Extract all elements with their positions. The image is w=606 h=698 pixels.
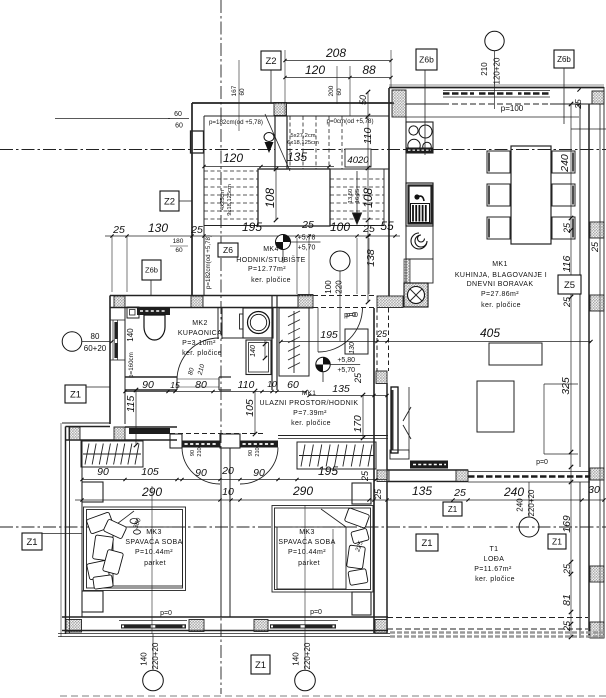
svg-text:108: 108 bbox=[361, 188, 375, 208]
wall hatch bath top-right bbox=[191, 296, 203, 308]
chair right 3 bbox=[552, 217, 575, 239]
svg-text:135: 135 bbox=[332, 383, 350, 395]
svg-text:25: 25 bbox=[373, 488, 383, 500]
door bedroom2 swing arc bbox=[240, 448, 278, 485]
svg-text:KUPAONICA: KUPAONICA bbox=[178, 330, 222, 337]
svg-text:110: 110 bbox=[362, 127, 374, 144]
window mark loggia bbox=[516, 482, 540, 537]
svg-text:220+20: 220+20 bbox=[303, 642, 312, 669]
svg-text:210: 210 bbox=[197, 447, 203, 456]
svg-text:195: 195 bbox=[318, 464, 338, 478]
door bedroom2 threshold bbox=[240, 441, 278, 448]
chair right 2 bbox=[552, 184, 575, 206]
svg-text:60: 60 bbox=[174, 111, 182, 118]
dim 115 left wall bbox=[125, 388, 138, 447]
svg-text:parket: parket bbox=[298, 560, 320, 567]
svg-text:90: 90 bbox=[97, 466, 109, 478]
svg-text:88: 88 bbox=[362, 63, 376, 77]
svg-text:60: 60 bbox=[336, 88, 343, 96]
wardrobe bedroom1 bbox=[81, 441, 143, 467]
column kitchen top-right corner bbox=[592, 91, 604, 104]
room label MK2 kupaonica bbox=[178, 320, 222, 357]
svg-text:120+20: 120+20 bbox=[493, 57, 502, 84]
wardrobe hall bbox=[297, 442, 376, 469]
svg-text:405: 405 bbox=[480, 326, 500, 340]
svg-text:P=11.67m²: P=11.67m² bbox=[474, 566, 512, 573]
svg-text:Z1: Z1 bbox=[70, 389, 81, 400]
svg-text:Z1: Z1 bbox=[448, 505, 458, 514]
room label MK1 kitchen bbox=[455, 261, 547, 309]
balcony door leaf bbox=[391, 387, 411, 453]
svg-text:25: 25 bbox=[573, 99, 583, 110]
svg-text:25: 25 bbox=[562, 563, 572, 575]
svg-text:+5,80: +5,80 bbox=[337, 357, 355, 364]
column at stair/kitchen corner bbox=[392, 90, 406, 117]
wall hatch living-loggia right bbox=[590, 468, 604, 480]
svg-text:P=12.77m²: P=12.77m² bbox=[248, 266, 286, 273]
svg-text:Z6b: Z6b bbox=[145, 266, 158, 275]
svg-text:135: 135 bbox=[287, 150, 307, 164]
washing machine bbox=[243, 308, 273, 338]
svg-text:MK4: MK4 bbox=[263, 246, 279, 253]
svg-text:55: 55 bbox=[380, 219, 394, 233]
section marker Z1 left upper bbox=[65, 385, 110, 403]
svg-text:140: 140 bbox=[140, 652, 149, 666]
svg-text:15: 15 bbox=[170, 380, 180, 390]
svg-text:60+20: 60+20 bbox=[84, 344, 107, 353]
section marker Z6 stairs bbox=[218, 243, 238, 257]
svg-text:Z5: Z5 bbox=[564, 280, 575, 291]
wall hatch left bottom bbox=[66, 620, 82, 633]
shower tub bbox=[246, 340, 271, 375]
chair left 1 bbox=[487, 151, 510, 173]
wall hatch br1 top-right bbox=[114, 427, 125, 440]
svg-text:p=182cm(od +5,78): p=182cm(od +5,78) bbox=[209, 119, 263, 126]
svg-text:MK3: MK3 bbox=[299, 529, 315, 536]
stairwell spine wall bbox=[275, 116, 287, 169]
svg-text:25: 25 bbox=[590, 241, 600, 253]
entry door leaf line bbox=[317, 308, 319, 353]
svg-text:167: 167 bbox=[231, 85, 238, 96]
section marker Z1 bottom bbox=[251, 655, 270, 674]
toilet bbox=[137, 307, 170, 340]
dim 325 living room helper lines bbox=[544, 129, 606, 454]
living-loggia wall bbox=[387, 470, 590, 482]
window bedroom1 south bbox=[119, 621, 187, 629]
svg-text:16,25: 16,25 bbox=[355, 189, 361, 204]
svg-text:105: 105 bbox=[244, 399, 256, 417]
svg-text:195: 195 bbox=[242, 220, 262, 234]
dim 135 entry y395 bbox=[307, 372, 388, 397]
dim chain right x571 bbox=[559, 102, 573, 639]
section marker Z2 left bbox=[160, 191, 192, 211]
bedroom1 top wall bbox=[62, 423, 177, 440]
svg-text:90: 90 bbox=[195, 467, 207, 479]
svg-text:6x18,125cm: 6x18,125cm bbox=[287, 140, 319, 146]
night stand br2 bottom bbox=[352, 592, 371, 615]
chair right 1 bbox=[552, 151, 575, 173]
kitchen counter top edge bbox=[406, 116, 579, 118]
column at stair top wall bbox=[274, 103, 287, 116]
room label MK4 hodnik-stubiste bbox=[236, 246, 305, 284]
svg-text:+5,70: +5,70 bbox=[298, 245, 316, 252]
column in stair left wall bbox=[191, 131, 204, 153]
svg-text:100: 100 bbox=[330, 220, 350, 234]
svg-text:P=7.39m²: P=7.39m² bbox=[293, 410, 327, 417]
svg-text:SPAVAĆA SOBA: SPAVAĆA SOBA bbox=[278, 537, 335, 546]
svg-text:MK3: MK3 bbox=[146, 529, 162, 536]
svg-text:170: 170 bbox=[352, 415, 364, 433]
svg-text:325: 325 bbox=[560, 377, 572, 395]
svg-text:25: 25 bbox=[376, 329, 388, 339]
svg-text:P=3.10m²: P=3.10m² bbox=[182, 340, 216, 347]
wall pier left of door1 bbox=[170, 434, 182, 448]
svg-text:HODNIK/STUBIŠTE: HODNIK/STUBIŠTE bbox=[236, 255, 305, 264]
svg-text:10: 10 bbox=[267, 379, 277, 389]
section marker Z2 top bbox=[261, 51, 281, 103]
dim 180/60 stair left bbox=[170, 238, 188, 254]
wall hatch loggia west top bbox=[376, 371, 387, 384]
svg-text:115: 115 bbox=[125, 395, 137, 412]
svg-text:Z1: Z1 bbox=[552, 537, 562, 547]
svg-text:130: 130 bbox=[148, 221, 168, 235]
wall hatch living-loggia mid bbox=[456, 470, 468, 482]
svg-text:138: 138 bbox=[365, 249, 377, 267]
svg-text:50: 50 bbox=[358, 95, 368, 105]
svg-text:p=0: p=0 bbox=[310, 609, 322, 616]
level marker stairs bbox=[276, 235, 321, 264]
wall hatch right 1 bbox=[590, 222, 604, 238]
svg-text:81: 81 bbox=[561, 594, 573, 606]
svg-text:+5,78: +5,78 bbox=[298, 235, 316, 242]
centerline horizontal axis upper bbox=[0, 149, 606, 151]
svg-text:140: 140 bbox=[126, 328, 135, 342]
room label MK3 bedroom2 bbox=[278, 529, 335, 567]
kitchen sink bbox=[406, 183, 433, 226]
svg-text:200: 200 bbox=[328, 85, 335, 96]
svg-text:KUHINJA, BLAGOVANJE I: KUHINJA, BLAGOVANJE I bbox=[455, 272, 547, 279]
room label T1 loggia bbox=[474, 546, 515, 583]
svg-text:220+20: 220+20 bbox=[151, 642, 160, 669]
stair direction line upper bbox=[265, 114, 290, 171]
section marker Z1 right bbox=[548, 534, 566, 549]
wall hatch bath top-left bbox=[114, 296, 125, 308]
svg-text:130: 130 bbox=[349, 342, 356, 354]
door bedroom1 swing arc bbox=[182, 448, 220, 485]
svg-text:120: 120 bbox=[305, 63, 325, 77]
svg-text:MK2: MK2 bbox=[192, 320, 208, 327]
washer niche bar bbox=[240, 314, 244, 329]
svg-text:5x27,2cm: 5x27,2cm bbox=[290, 133, 315, 139]
svg-text:MK1: MK1 bbox=[492, 261, 508, 268]
svg-text:LOĐA: LOĐA bbox=[484, 556, 505, 563]
svg-text:105: 105 bbox=[141, 466, 159, 478]
bed bedroom2 bbox=[272, 506, 373, 593]
svg-text:195: 195 bbox=[320, 329, 338, 341]
svg-text:30: 30 bbox=[588, 484, 600, 496]
dim chain doors y479 bbox=[80, 464, 387, 481]
dim stairs inner y166 bbox=[202, 150, 334, 168]
wall hatch south mid-left bbox=[189, 620, 204, 632]
dim chain entry-living y341 bbox=[279, 326, 592, 343]
window bedroom2 south bbox=[268, 621, 338, 629]
svg-text:10: 10 bbox=[222, 486, 234, 498]
svg-text:p=0: p=0 bbox=[536, 459, 548, 466]
svg-text:220+20: 220+20 bbox=[527, 489, 536, 516]
wall hatch south mid-right bbox=[254, 620, 268, 632]
window leader bedroom1 bbox=[151, 486, 153, 634]
bedrooms north wall bbox=[170, 434, 388, 449]
dim chain bottom y500 bbox=[75, 484, 606, 502]
svg-text:25: 25 bbox=[562, 620, 572, 632]
svg-text:9x18,125cm: 9x18,125cm bbox=[227, 184, 233, 216]
bathroom door threshold bbox=[177, 378, 219, 380]
svg-text:Z1: Z1 bbox=[26, 537, 37, 548]
svg-text:60: 60 bbox=[175, 247, 183, 254]
svg-text:169: 169 bbox=[561, 515, 573, 533]
svg-text:90: 90 bbox=[248, 450, 254, 456]
bathroom door swing arc bbox=[177, 338, 219, 380]
level marker entry bbox=[316, 357, 360, 382]
section marker Z5 right bbox=[558, 275, 581, 294]
door bedroom1 threshold bbox=[182, 441, 220, 448]
section marker Z6b top-right bbox=[554, 50, 574, 124]
svg-text:4020: 4020 bbox=[347, 155, 369, 166]
loggia south edge bbox=[387, 618, 604, 637]
section marker Z1 left lower bbox=[22, 533, 82, 550]
svg-text:p=160cm: p=160cm bbox=[128, 352, 135, 378]
stair block top wall bbox=[192, 103, 394, 116]
svg-text:90: 90 bbox=[190, 450, 196, 456]
svg-text:240: 240 bbox=[503, 485, 524, 499]
night stand br1 bottom bbox=[82, 591, 103, 612]
loggia west wall bbox=[374, 308, 389, 633]
wall hatch right 2 bbox=[590, 295, 604, 311]
svg-text:SPAVAĆA SOBA: SPAVAĆA SOBA bbox=[125, 537, 182, 546]
dim 60/60 left bbox=[55, 111, 189, 130]
svg-text:100: 100 bbox=[324, 280, 333, 294]
svg-text:Z2: Z2 bbox=[164, 196, 175, 207]
wall hatch br1 top-left bbox=[69, 427, 80, 440]
chair left 2 bbox=[487, 184, 510, 206]
svg-text:290: 290 bbox=[292, 484, 313, 498]
svg-text:108: 108 bbox=[263, 188, 277, 208]
svg-text:80: 80 bbox=[91, 332, 100, 341]
svg-text:90: 90 bbox=[253, 467, 265, 479]
bathroom south wall bbox=[125, 296, 277, 390]
hall south face line bbox=[278, 435, 388, 437]
svg-text:240: 240 bbox=[516, 498, 525, 512]
svg-text:208: 208 bbox=[325, 46, 346, 60]
svg-text:140: 140 bbox=[250, 345, 257, 357]
chair left 3 bbox=[487, 217, 510, 239]
centerline horizontal axis lower (section Z1) bbox=[0, 526, 606, 528]
svg-text:120: 120 bbox=[223, 151, 243, 165]
svg-text:210: 210 bbox=[480, 62, 489, 76]
entry door leaf box bbox=[345, 329, 368, 354]
wall hatch right 3 bbox=[590, 566, 604, 582]
svg-text:Z1: Z1 bbox=[421, 538, 432, 549]
kitchen cabinet hatch strip bbox=[404, 259, 433, 283]
svg-text:290: 290 bbox=[141, 485, 162, 499]
room label MK1 ulazni prostor bbox=[260, 390, 359, 427]
svg-text:116: 116 bbox=[561, 255, 573, 272]
wall pier between doors bbox=[220, 434, 240, 448]
window mark bathroom west bbox=[62, 332, 113, 353]
hall-bathroom wall band bbox=[110, 296, 377, 308]
window mark hall bbox=[324, 251, 350, 341]
svg-text:25: 25 bbox=[360, 470, 370, 482]
dim chain top 208 bbox=[283, 46, 392, 116]
wall hatch loggia west bottom bbox=[375, 620, 387, 634]
bathroom left wall bbox=[110, 296, 125, 425]
window leader bedroom2 bbox=[305, 505, 333, 634]
bathroom cabinet inner bbox=[130, 310, 136, 316]
svg-text:13,50: 13,50 bbox=[348, 189, 354, 204]
entry door swing arc bbox=[318, 308, 363, 353]
svg-text:25: 25 bbox=[453, 487, 466, 499]
svg-text:ker. pločice: ker. pločice bbox=[475, 576, 515, 583]
svg-text:ker. pločice: ker. pločice bbox=[481, 302, 521, 309]
wall hatch hall opening pier bbox=[298, 295, 313, 309]
svg-text:parket: parket bbox=[144, 560, 166, 567]
svg-text:p=0: p=0 bbox=[160, 610, 172, 617]
svg-text:Z6b: Z6b bbox=[419, 55, 434, 65]
dim chain bathroom y391 bbox=[123, 379, 307, 393]
kitchen top exterior wall bbox=[389, 85, 604, 104]
svg-text:135: 135 bbox=[412, 484, 432, 498]
svg-text:Z1: Z1 bbox=[255, 660, 266, 671]
svg-text:P=10.44m²: P=10.44m² bbox=[135, 549, 173, 556]
svg-text:4x25cm: 4x25cm bbox=[220, 190, 226, 210]
svg-text:110: 110 bbox=[238, 379, 255, 391]
svg-text:p=100: p=100 bbox=[501, 104, 524, 113]
svg-text:p=0: p=0 bbox=[346, 312, 358, 319]
night stand br2 top bbox=[352, 483, 371, 504]
wall hatch right 4 bbox=[590, 622, 604, 638]
svg-text:25: 25 bbox=[562, 296, 572, 308]
balcony door sill block bbox=[390, 450, 409, 459]
svg-text:25: 25 bbox=[301, 219, 314, 231]
svg-text:p=0cm(od +5,78): p=0cm(od +5,78) bbox=[326, 118, 373, 125]
wall hatch hall-loggia junction bbox=[377, 296, 403, 308]
window mark kitchen north bbox=[480, 31, 504, 109]
bedrooms south wall bbox=[58, 617, 390, 637]
dishwasher spiral bbox=[406, 226, 433, 259]
svg-text:80: 80 bbox=[195, 379, 207, 391]
window mark bedroom1 bbox=[140, 634, 164, 691]
right exterior wall bbox=[580, 87, 604, 638]
partition wall bedrooms bbox=[221, 448, 230, 617]
svg-text:ker. pločice: ker. pločice bbox=[291, 420, 331, 427]
dim chain stairs y233 bbox=[105, 219, 400, 294]
section marker Z1 loggia small bbox=[443, 502, 462, 516]
svg-text:Z6: Z6 bbox=[223, 245, 233, 255]
svg-text:DNEVNI BORAVAK: DNEVNI BORAVAK bbox=[467, 281, 534, 288]
staircase bbox=[204, 114, 389, 226]
svg-text:MK1: MK1 bbox=[302, 390, 316, 397]
stove bbox=[406, 122, 434, 153]
dining table bbox=[511, 146, 551, 244]
svg-text:ker. pločice: ker. pločice bbox=[182, 350, 222, 357]
stair direction line right bbox=[356, 171, 358, 218]
svg-text:25: 25 bbox=[112, 224, 125, 236]
svg-text:180: 180 bbox=[173, 238, 184, 245]
divider wall stairs-kitchen bbox=[389, 88, 406, 296]
svg-text:210: 210 bbox=[255, 447, 261, 456]
svg-text:ULAZNI PROSTOR/HODNIK: ULAZNI PROSTOR/HODNIK bbox=[260, 400, 359, 407]
stair down arrow bbox=[353, 213, 362, 224]
section marker Z6b top-mid bbox=[416, 49, 437, 155]
window kitchen north bbox=[443, 91, 550, 98]
bed bedroom1 bbox=[84, 507, 186, 591]
dim 170 entry east bbox=[352, 393, 365, 440]
svg-text:220: 220 bbox=[335, 280, 344, 294]
svg-text:60: 60 bbox=[175, 123, 183, 130]
svg-text:140: 140 bbox=[292, 652, 301, 666]
chimney vent bbox=[404, 283, 428, 307]
left exterior wall bedrooms bbox=[61, 423, 82, 637]
svg-text:T1: T1 bbox=[490, 546, 499, 553]
svg-text:p=182cm(od +5,78): p=182cm(od +5,78) bbox=[205, 235, 212, 289]
bathroom small cabinet bbox=[127, 307, 139, 318]
dim chain stairs right x368 bbox=[358, 90, 377, 304]
stair landing bbox=[258, 169, 330, 226]
site boundary dashed bbox=[60, 695, 606, 697]
room label MK3 bedroom1 bbox=[125, 529, 182, 567]
svg-text:60: 60 bbox=[287, 379, 299, 391]
dim 200/60 kitchen top bbox=[328, 66, 343, 104]
dim 105 entry bbox=[244, 389, 257, 436]
svg-text:25: 25 bbox=[190, 224, 203, 236]
svg-text:20: 20 bbox=[221, 465, 234, 477]
night stand br1 top bbox=[82, 482, 103, 502]
window mark bedroom2 bbox=[292, 634, 316, 691]
svg-text:60: 60 bbox=[239, 88, 246, 96]
beam dark bar over wardrobe bbox=[129, 428, 170, 434]
section marker Z6b left bbox=[142, 260, 161, 295]
closet entry bbox=[279, 308, 309, 376]
svg-text:+5,70: +5,70 bbox=[337, 367, 355, 374]
dim box 4020 bbox=[345, 149, 371, 167]
bathroom niche stub wall bbox=[218, 308, 243, 340]
svg-text:P=27.86m²: P=27.86m² bbox=[481, 291, 519, 298]
stair arrow loop bbox=[264, 133, 274, 142]
loggia door threshold bbox=[410, 461, 448, 469]
svg-text:P=10.44m²: P=10.44m² bbox=[288, 549, 326, 556]
svg-text:ker. pločice: ker. pločice bbox=[251, 277, 291, 284]
sideboard living room bbox=[489, 343, 542, 365]
wall hatch living-loggia left bbox=[377, 470, 389, 482]
stair block left wall bbox=[192, 103, 204, 296]
centerline vertical axis bbox=[220, 0, 222, 694]
svg-text:25: 25 bbox=[362, 223, 375, 235]
svg-text:90: 90 bbox=[142, 379, 154, 391]
table living room bbox=[477, 381, 514, 432]
section marker Z1 loggia bbox=[416, 534, 438, 551]
svg-text:Z6b: Z6b bbox=[557, 55, 571, 64]
svg-text:240: 240 bbox=[559, 154, 571, 173]
svg-text:Z2: Z2 bbox=[265, 56, 276, 67]
svg-text:25: 25 bbox=[562, 222, 572, 234]
dim 167/60 stair top bbox=[231, 60, 246, 131]
stair arrow head bbox=[265, 142, 274, 153]
window bathroom west bbox=[110, 320, 125, 360]
